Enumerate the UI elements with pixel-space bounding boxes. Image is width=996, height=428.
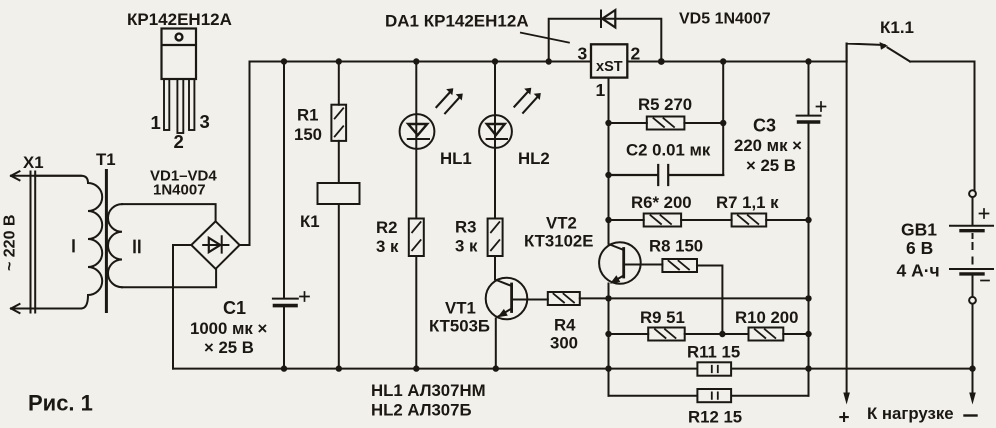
svg-text:2: 2: [631, 44, 641, 64]
svg-text:КР142ЕН12А: КР142ЕН12А: [127, 10, 232, 29]
svg-text:HL2: HL2: [518, 149, 550, 168]
svg-text:1: 1: [151, 112, 161, 133]
svg-text:R3: R3: [455, 218, 476, 237]
svg-text:R8 150: R8 150: [649, 237, 703, 256]
svg-text:150: 150: [294, 125, 322, 144]
svg-text:220 мк ×: 220 мк ×: [734, 136, 802, 155]
svg-text:КТ3102Е: КТ3102Е: [524, 232, 593, 251]
svg-text:К нагрузке: К нагрузке: [867, 404, 954, 423]
svg-text:GB1: GB1: [901, 220, 937, 240]
svg-text:Т1: Т1: [96, 150, 116, 169]
svg-text:1000 мк ×: 1000 мк ×: [190, 319, 267, 338]
svg-text:1: 1: [596, 80, 606, 100]
svg-text:КТ503Б: КТ503Б: [429, 317, 490, 336]
svg-text:~ 220 В: ~ 220 В: [2, 215, 19, 271]
svg-text:R1: R1: [297, 106, 318, 125]
svg-text:R9 51: R9 51: [640, 308, 685, 327]
svg-text:× 25 В: × 25 В: [204, 338, 254, 357]
svg-text:3 к: 3 к: [455, 237, 478, 256]
svg-text:R6* 200: R6* 200: [631, 193, 692, 212]
svg-text:2: 2: [174, 131, 184, 152]
svg-text:VD5 1N4007: VD5 1N4007: [679, 11, 771, 28]
svg-text:К1.1: К1.1: [880, 18, 914, 37]
svg-text:3: 3: [578, 44, 588, 64]
svg-text:Рис. 1: Рис. 1: [28, 391, 93, 416]
svg-text:С2 0.01 мк: С2 0.01 мк: [626, 141, 711, 160]
svg-text:× 25 В: × 25 В: [746, 156, 796, 175]
svg-text:300: 300: [550, 334, 578, 353]
svg-text:HL1: HL1: [440, 149, 472, 168]
svg-text:К1: К1: [300, 212, 320, 231]
svg-text:R11 15: R11 15: [687, 343, 740, 362]
svg-text:С3: С3: [753, 116, 776, 136]
svg-text:R7 1,1 к: R7 1,1 к: [716, 193, 779, 212]
svg-text:4 А·ч: 4 А·ч: [897, 261, 940, 281]
svg-text:VT1: VT1: [445, 299, 476, 318]
svg-text:R12 15: R12 15: [688, 408, 742, 427]
svg-text:3 к: 3 к: [376, 237, 399, 256]
svg-text:R5 270: R5 270: [638, 95, 692, 114]
svg-text:R10 200: R10 200: [735, 308, 798, 327]
svg-text:С1: С1: [223, 298, 246, 318]
svg-text:3: 3: [200, 111, 210, 132]
svg-text:хSТ: хSТ: [596, 59, 623, 75]
svg-text:R4: R4: [554, 316, 576, 335]
svg-text:6 В: 6 В: [906, 238, 933, 258]
svg-text:HL2 АЛ307Б: HL2 АЛ307Б: [371, 401, 472, 420]
svg-text:+: +: [839, 408, 850, 428]
svg-text:HL1 АЛ307НМ: HL1 АЛ307НМ: [371, 381, 486, 400]
svg-text:Х1: Х1: [23, 153, 44, 172]
svg-text:1N4007: 1N4007: [153, 182, 206, 199]
svg-text:VT2: VT2: [546, 214, 577, 233]
svg-text:DA1 КР142ЕН12А: DA1 КР142ЕН12А: [385, 12, 529, 31]
svg-text:R2: R2: [376, 218, 397, 237]
